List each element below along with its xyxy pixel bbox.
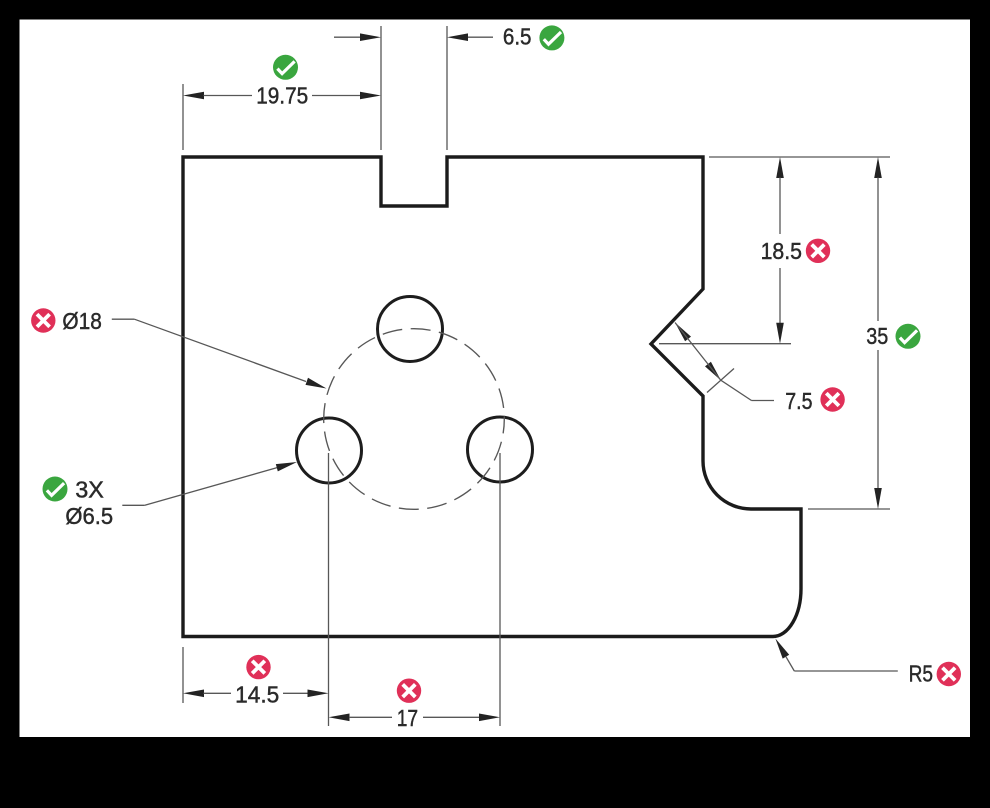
dimension 18.5: lines and arrows — [776, 157, 784, 344]
dimension 19.75: lines and arrows — [183, 92, 381, 100]
cross icon for 18.5 — [806, 239, 830, 263]
svg-text:R5: R5 — [909, 661, 933, 687]
leader for Ø18 label — [112, 319, 327, 388]
cross icon for Ø18 — [31, 308, 55, 332]
bolt circle Ø18 (dashed) — [324, 329, 505, 510]
check icon for 6.5 — [539, 25, 564, 50]
svg-text:19.75: 19.75 — [256, 83, 308, 109]
extension line slot left edge — [380, 26, 382, 150]
cross icon for R5 — [937, 662, 961, 686]
cross icon for 14.5 — [246, 655, 270, 679]
cross icon for 17 — [397, 679, 421, 703]
extension line left hole center — [328, 453, 330, 726]
extension line right hole center — [499, 453, 501, 726]
hole left (Ø6.5) — [297, 418, 362, 483]
extension line step edge for 35 dim — [808, 508, 890, 510]
cross icon for 7.5 — [820, 387, 844, 411]
svg-text:6.5: 6.5 — [503, 24, 532, 50]
svg-text:17: 17 — [397, 705, 418, 731]
extension line notch vertex (horizontal) — [659, 343, 791, 345]
part outline — [183, 157, 801, 637]
svg-text:35: 35 — [866, 323, 888, 349]
leader for R5 label — [775, 639, 897, 672]
dimension 35: lines and arrows — [874, 157, 882, 509]
extension line part top edge (right) — [709, 156, 890, 158]
dimension 14.5: lines and arrows — [183, 690, 329, 698]
check icon for 3X Ø6.5 — [43, 477, 68, 502]
dimension 6.5 slot width: lines and arrows — [334, 33, 493, 41]
hole right (Ø6.5) — [468, 417, 533, 482]
svg-text:7.5: 7.5 — [785, 388, 812, 414]
extension line part left edge (bottom) — [182, 647, 184, 703]
svg-text:14.5: 14.5 — [235, 682, 279, 708]
check icon for 35 — [896, 324, 921, 349]
svg-text:Ø18: Ø18 — [62, 308, 101, 334]
hole top (Ø6.5) — [378, 297, 443, 362]
leader for 3X Ø6.5 label — [122, 462, 297, 505]
svg-text:18.5: 18.5 — [761, 238, 802, 264]
extension line part left edge (top) — [182, 84, 184, 150]
dimension 7.5 notch: double arrow, tick and leader — [675, 323, 774, 401]
dimension 17: lines and arrows — [329, 714, 501, 722]
extension line slot right edge — [446, 26, 448, 150]
check icon for 19.75 — [273, 55, 298, 80]
svg-text:Ø6.5: Ø6.5 — [65, 503, 113, 529]
svg-text:3X: 3X — [75, 477, 104, 503]
